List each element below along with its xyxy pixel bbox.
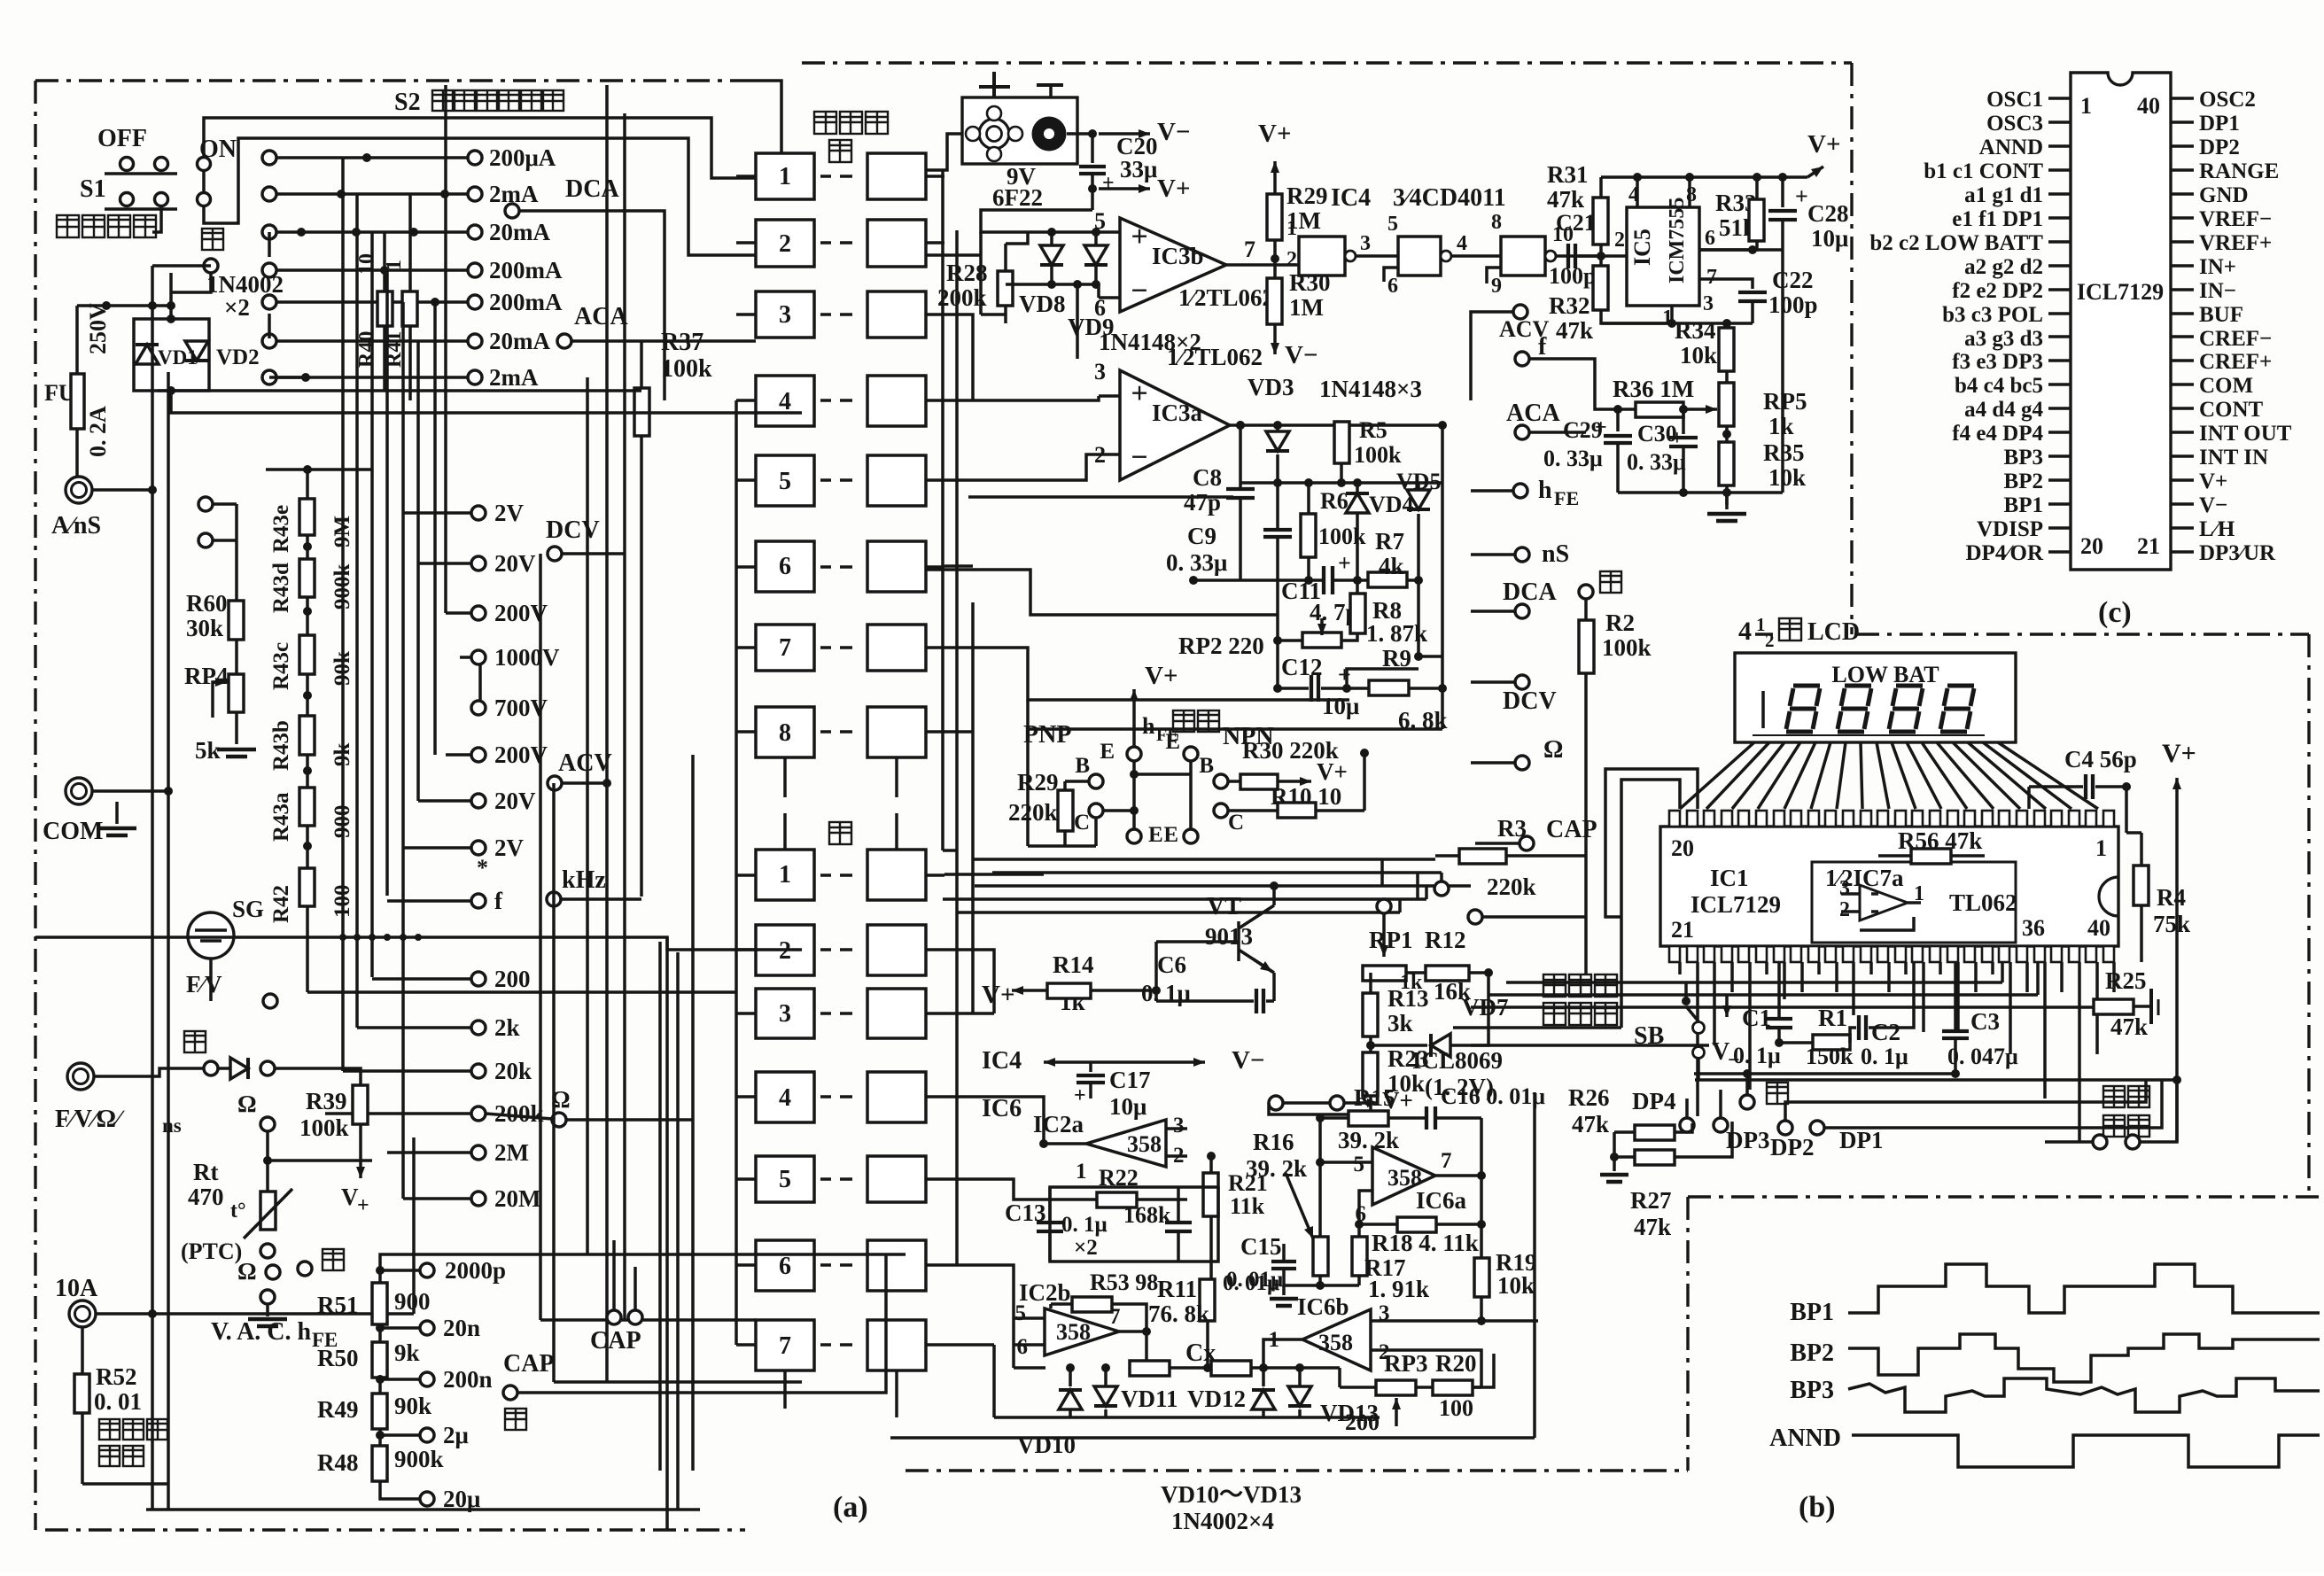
svg-text:3: 3 — [779, 301, 791, 329]
svg-text:nS: nS — [1542, 540, 1569, 568]
svg-text:IC5: IC5 — [1629, 229, 1655, 266]
node ICL8069 label — [1412, 1047, 1503, 1100]
svg-text:TL062: TL062 — [1949, 889, 2017, 916]
resistor R29 220k hfe — [1008, 769, 1089, 846]
node range 2M row — [471, 1139, 529, 1166]
svg-text:ANND: ANND — [1979, 136, 2043, 159]
svg-text:6F22: 6F22 — [992, 184, 1043, 211]
svg-text:(a): (a) — [833, 1491, 868, 1524]
label (b) — [1799, 1491, 1836, 1524]
svg-text:2M: 2M — [494, 1139, 529, 1166]
svg-text:b1 c1 CONT: b1 c1 CONT — [1924, 159, 2043, 183]
svg-text:3: 3 — [1839, 877, 1850, 900]
svg-text:20n: 20n — [443, 1315, 480, 1341]
svg-text:R52: R52 — [96, 1363, 137, 1390]
svg-text:CONT: CONT — [2199, 398, 2264, 422]
svg-text:V: V — [341, 1184, 359, 1210]
svg-text:ICM7555: ICM7555 — [1666, 198, 1689, 283]
svg-text:CREF+: CREF+ — [2199, 350, 2272, 374]
diode VD5 — [1396, 469, 1442, 661]
svg-text:C28: C28 — [1807, 200, 1849, 227]
svg-text:10k: 10k — [1497, 1272, 1535, 1299]
resistor R29 1M — [1267, 182, 1328, 278]
svg-text:20V: 20V — [494, 788, 536, 814]
connector pin box 7 — [736, 1320, 944, 1370]
svg-text:4: 4 — [779, 1084, 791, 1112]
node hFE socket NPN pins — [1163, 730, 1244, 847]
svg-text:10: 10 — [355, 253, 378, 275]
svg-text:2: 2 — [1765, 630, 1775, 651]
svg-text:0. 01: 0. 01 — [94, 1388, 142, 1415]
resistor R33 51k — [1699, 177, 1764, 250]
svg-text:LCD: LCD — [1807, 618, 1860, 646]
svg-text:900: 900 — [394, 1288, 431, 1315]
node ICL7129 left pin a4 d4 g4 — [1964, 398, 2071, 422]
svg-text:R29: R29 — [1017, 769, 1059, 796]
resistor R3 220k — [1435, 815, 1586, 900]
generator SG — [186, 896, 277, 1008]
resistor R10 10 — [1228, 783, 1364, 818]
svg-text:CREF−: CREF− — [2199, 327, 2272, 351]
wire connector left bus — [736, 400, 897, 1417]
node VD10-13 1N4002 label — [1161, 1481, 1302, 1534]
svg-text:R32: R32 — [1549, 292, 1590, 319]
node 电源开关 label — [57, 215, 156, 237]
op-amp IC2a — [1033, 1111, 1187, 1184]
svg-text:150k: 150k — [1806, 1044, 1854, 1069]
svg-text:OFF: OFF — [97, 125, 147, 152]
node ICL7129 right pin CREF+ — [2171, 350, 2272, 374]
svg-text:b2 c2 LOW BATT: b2 c2 LOW BATT — [1869, 231, 2043, 255]
svg-text:ACA: ACA — [1506, 400, 1560, 427]
node hFE socket PNP pins — [1074, 740, 1163, 847]
node ICL7129 right pin VREF+ — [2171, 231, 2272, 255]
svg-text:3: 3 — [779, 1000, 791, 1028]
svg-text:R5: R5 — [1359, 417, 1387, 443]
svg-text:IC1: IC1 — [1710, 865, 1749, 891]
node ICL7129 left pin f4 e4 DP4 — [1952, 422, 2071, 446]
wire IC2b output to Cx — [1014, 1318, 1212, 1372]
wire IC5 bottom node — [1601, 319, 1753, 328]
capacitor C16 0.01u — [1426, 1083, 1545, 1130]
svg-text:Ω: Ω — [237, 1091, 257, 1117]
svg-text:1∕2TL062: 1∕2TL062 — [1178, 284, 1274, 311]
svg-text:C3: C3 — [1970, 1008, 2000, 1035]
svg-text:6: 6 — [779, 1253, 791, 1280]
resistor R51 — [317, 1283, 431, 1324]
svg-text:(b): (b) — [1799, 1491, 1836, 1524]
resistor R28 — [937, 244, 1013, 323]
svg-text:0. 1μ: 0. 1μ — [1733, 1043, 1781, 1068]
svg-text:470: 470 — [188, 1184, 224, 1210]
svg-text:6: 6 — [1705, 227, 1715, 250]
node DCV terminal middle — [1471, 675, 1557, 715]
node DCA terminal — [505, 175, 665, 400]
svg-text:Ω: Ω — [1543, 736, 1563, 764]
svg-text:0. 33μ: 0. 33μ — [1627, 449, 1686, 475]
svg-text:f4 e4 DP4: f4 e4 DP4 — [1952, 422, 2043, 446]
node R27 label — [1630, 1187, 1672, 1240]
resistor R21 11k — [1203, 1152, 1268, 1279]
wire battery to V rails — [926, 129, 1097, 232]
svg-text:39. 2k: 39. 2k — [1246, 1155, 1307, 1182]
node 接插件 connector label — [814, 112, 888, 134]
resistor R30 220k hfe — [1228, 737, 1348, 789]
node ICL7129 left pin a3 g3 d3 — [1964, 327, 2071, 351]
node Omega terminal 200k row — [486, 1086, 693, 1127]
node IC1 pin rows — [1669, 811, 2114, 962]
svg-text:C8: C8 — [1193, 464, 1222, 491]
resistor R17 1.91k — [1284, 1237, 1429, 1302]
node left-connector label 左 — [829, 822, 851, 844]
svg-text:OSC3: OSC3 — [1986, 112, 2043, 136]
node range 2mA row — [262, 181, 539, 207]
node ACV terminal — [548, 749, 612, 790]
svg-text:R25: R25 — [2105, 967, 2147, 994]
svg-text:4k: 4k — [1379, 553, 1404, 579]
svg-text:E: E — [1148, 823, 1163, 847]
node ICL7129 right pin DP2 — [2171, 136, 2240, 159]
node ICL7129 right pin INT IN — [2171, 446, 2268, 470]
svg-text:VD12: VD12 — [1187, 1386, 1246, 1412]
capacitor Cx unknown — [1130, 1339, 1340, 1376]
svg-text:R42: R42 — [269, 885, 293, 923]
resistor R1 150k — [1775, 1005, 1854, 1069]
svg-text:3k: 3k — [1387, 1010, 1413, 1036]
node 200n tap — [376, 1366, 493, 1394]
svg-text:kHz: kHz — [562, 866, 606, 894]
resistor R12 16k — [1406, 927, 1493, 1005]
svg-text:R40: R40 — [355, 331, 378, 368]
svg-text:5: 5 — [1354, 1153, 1365, 1176]
resistor R15 39.2k — [1316, 1084, 1425, 1153]
node range 20V row — [471, 550, 536, 577]
svg-text:V−: V− — [2199, 493, 2227, 517]
svg-text:R20: R20 — [1435, 1350, 1477, 1377]
svg-text:−: − — [1728, 1049, 1740, 1072]
node ICL7129 left pin f3 e3 DP3 — [1952, 350, 2071, 374]
ground C15 R16 R17 — [1270, 1285, 1298, 1306]
svg-text:C6: C6 — [1157, 951, 1186, 978]
svg-text:f: f — [1538, 333, 1547, 361]
node ACV terminal middle — [1471, 305, 1550, 400]
svg-text:C12: C12 — [1281, 654, 1323, 680]
node 1N4148x2 label — [1099, 329, 1201, 355]
node ICL7129 right pin INT OUT — [2171, 422, 2292, 446]
resistor R48 — [317, 1446, 444, 1481]
resistor R49 — [317, 1393, 431, 1429]
wire range row links — [269, 153, 449, 382]
svg-text:OSC2: OSC2 — [2199, 88, 2256, 112]
svg-text:47k: 47k — [2110, 1013, 2148, 1040]
svg-text:RP4: RP4 — [184, 663, 229, 689]
node 刀 terminal middle — [1579, 571, 1621, 620]
wire IC3b input network — [926, 228, 1100, 359]
resistor R8 1.87k — [1341, 580, 1427, 647]
capacitor C4 56p — [2029, 746, 2137, 809]
svg-text:76. 8k: 76. 8k — [1148, 1300, 1209, 1327]
svg-text:11k: 11k — [1230, 1193, 1265, 1219]
svg-text:DCA: DCA — [565, 175, 619, 203]
svg-text:R43b: R43b — [269, 720, 293, 771]
svg-text:9k: 9k — [394, 1339, 420, 1366]
svg-text:S1: S1 — [80, 175, 106, 203]
svg-text:+: + — [1338, 550, 1351, 576]
resistor R60 — [186, 504, 244, 641]
svg-text:VD3: VD3 — [1247, 374, 1294, 400]
svg-text:7: 7 — [779, 634, 791, 662]
svg-text:R2: R2 — [1605, 609, 1635, 636]
power V- arrow top — [1099, 118, 1190, 146]
svg-text:e1 f1 DP1: e1 f1 DP1 — [1952, 207, 2043, 231]
wire long horizontal runs left section — [35, 391, 802, 1382]
resistor R20 100 — [1433, 1350, 1494, 1421]
svg-text:OSC1: OSC1 — [1986, 88, 2043, 112]
svg-text:DP4∕OR: DP4∕OR — [1966, 541, 2044, 565]
wire analog box solid — [890, 1092, 1535, 1438]
svg-text:INT IN: INT IN — [2199, 446, 2268, 470]
svg-text:2000p: 2000p — [445, 1257, 506, 1284]
wire section-b dash-dot border — [1688, 1197, 2320, 1471]
svg-text:47k: 47k — [1547, 186, 1584, 213]
node BP1 waveform — [1790, 1264, 2320, 1326]
node ICL7129 right pin COM — [2171, 374, 2253, 398]
node Omega terminal middle — [1471, 736, 1563, 770]
svg-text:1: 1 — [779, 163, 791, 190]
svg-text:2: 2 — [1286, 248, 1297, 271]
node ICL7129 right pin VREF− — [2171, 207, 2272, 231]
svg-text:R39: R39 — [306, 1088, 347, 1114]
svg-text:B: B — [1075, 754, 1090, 778]
svg-text:47k: 47k — [1572, 1111, 1609, 1137]
svg-text:VD10: VD10 — [1017, 1432, 1076, 1458]
node COM jack — [43, 778, 173, 845]
resistor R43d — [269, 559, 354, 613]
svg-text:+: + — [1795, 183, 1808, 209]
svg-text:+: + — [1338, 662, 1351, 687]
node 刀 lcd — [1694, 1069, 2181, 1109]
capacitor C15 0.01u — [1223, 1233, 1296, 1295]
potentiometer RP2 220 — [1178, 618, 1341, 659]
svg-text:R4: R4 — [2157, 884, 2186, 911]
svg-text:V+: V+ — [1157, 175, 1190, 203]
svg-text:+: + — [1131, 221, 1147, 253]
svg-text:7: 7 — [1706, 266, 1717, 289]
op-amp IC3a — [1094, 344, 1263, 480]
node BP3 waveform — [1790, 1377, 2320, 1412]
node range 20mA row — [262, 328, 550, 354]
svg-text:A∕nS: A∕nS — [51, 512, 101, 540]
wire IC3b output to IC4 — [1226, 217, 1299, 271]
svg-text:0. 01μ: 0. 01μ — [1223, 1271, 1279, 1295]
svg-text:1: 1 — [1756, 614, 1766, 635]
svg-text:1: 1 — [2095, 835, 2107, 861]
connector pin box 2 — [736, 220, 944, 267]
switch SB hold — [1634, 982, 1705, 1080]
node F/V/Omega/ns jack — [55, 1063, 204, 1137]
svg-text:358: 358 — [1056, 1319, 1091, 1345]
svg-text:2: 2 — [1379, 1340, 1390, 1364]
svg-text:R51: R51 — [317, 1292, 359, 1318]
resistor R31 47k — [1547, 161, 1608, 260]
svg-text:R43a: R43a — [269, 792, 293, 842]
svg-text:100k: 100k — [1318, 524, 1366, 549]
wire section-a dash-dot border — [35, 81, 749, 1530]
svg-text:R26: R26 — [1568, 1084, 1610, 1111]
node ICL7129 left pin OSC3 — [1986, 112, 2071, 136]
svg-text:Ω: Ω — [237, 1258, 257, 1285]
svg-text:20μ: 20μ — [443, 1486, 480, 1512]
connector pin box 3 — [736, 989, 944, 1038]
potentiometer RP1 1k — [1363, 899, 1423, 994]
svg-text:V−: V− — [1285, 341, 1317, 369]
svg-text:VREF−: VREF− — [2199, 207, 2272, 231]
svg-text:DP2: DP2 — [2199, 136, 2240, 159]
fuse FU 0.2A — [44, 303, 111, 477]
capacitor C1 0.1u — [1733, 962, 1792, 1068]
svg-text:2: 2 — [1839, 898, 1850, 921]
svg-text:ACA: ACA — [574, 303, 628, 330]
wire IC3a output bus — [1230, 421, 1447, 430]
resistor R11 76.8k — [1148, 1276, 1215, 1368]
wire hFE V+ mesh horizontals — [944, 602, 1442, 1013]
node DP4 DP3 DP2 DP1 terminals — [1632, 1080, 2162, 1161]
node A/nS jack — [51, 477, 152, 540]
svg-text:VD1: VD1 — [158, 346, 198, 369]
svg-text:R43c: R43c — [269, 642, 293, 690]
resistor R50 — [317, 1339, 420, 1378]
svg-text:R34: R34 — [1675, 317, 1716, 344]
svg-text:4: 4 — [1457, 232, 1467, 255]
node ohm ground terminal — [248, 1290, 287, 1326]
svg-text:*: * — [477, 855, 488, 881]
svg-text:40: 40 — [2087, 915, 2110, 941]
connector pin box 4 — [736, 376, 944, 426]
svg-text:168k: 168k — [1123, 1202, 1171, 1228]
svg-text:B: B — [1199, 754, 1214, 778]
node ICL7129 left pin BP2 — [2004, 470, 2071, 493]
capacitor C12 10u — [1273, 640, 1369, 719]
node ICL7129 right pin V− — [2171, 493, 2227, 517]
svg-text:8: 8 — [1686, 183, 1697, 206]
wire IC3a inputs — [944, 396, 1099, 480]
resistor R43a — [269, 788, 354, 842]
svg-text:Rt: Rt — [193, 1159, 219, 1185]
capacitor C30 0.33u — [1627, 405, 1698, 493]
transistor VT 9013 — [1156, 881, 1279, 1001]
node 量程选择 label — [2103, 1086, 2149, 1137]
wire VD10 bottom rail — [994, 1345, 1380, 1458]
svg-text:IC4: IC4 — [982, 1047, 1022, 1075]
logic gate IC4-1 — [1299, 232, 1398, 276]
power V+ terminals mid — [1269, 1087, 1413, 1114]
node kHz terminal — [477, 855, 641, 906]
node range 1000V row — [471, 644, 560, 671]
node range 200V row — [471, 600, 548, 626]
svg-text:39. 2k: 39. 2k — [1338, 1127, 1399, 1153]
resistor R43b — [269, 716, 354, 771]
node range 200k row — [471, 1100, 544, 1127]
connector pin box 5 — [736, 1156, 944, 1202]
svg-text:20k: 20k — [494, 1058, 532, 1084]
ground RP4 — [217, 749, 256, 757]
svg-text:IC2a: IC2a — [1033, 1111, 1084, 1137]
wire LCD to IC1 fan — [1680, 742, 2098, 809]
svg-text:100: 100 — [1439, 1395, 1473, 1421]
power V- lcd — [1712, 995, 1740, 1072]
svg-text:200μA: 200μA — [489, 144, 556, 171]
svg-text:5: 5 — [1387, 213, 1398, 236]
svg-text:RP5: RP5 — [1763, 388, 1807, 415]
svg-text:VD2: VD2 — [216, 345, 260, 369]
svg-text:RP3: RP3 — [1384, 1350, 1428, 1377]
node ICL7129 right pin DP3∕UR — [2171, 541, 2276, 565]
svg-text:90k: 90k — [394, 1393, 431, 1419]
IC U5 ICM7555 — [1627, 183, 1717, 330]
svg-text:1. 91k: 1. 91k — [1368, 1276, 1429, 1302]
node range 2mA row — [262, 364, 539, 391]
svg-text:DCA: DCA — [1503, 578, 1557, 606]
ground R26 R27 — [1600, 1157, 1628, 1182]
node right-connector label 右 — [829, 140, 851, 162]
svg-text:(PTC): (PTC) — [181, 1238, 242, 1264]
wire VD bridge connections — [77, 273, 211, 310]
svg-text:C17: C17 — [1109, 1067, 1151, 1093]
svg-text:RP2 220: RP2 220 — [1178, 633, 1264, 659]
svg-text:900k: 900k — [394, 1446, 444, 1472]
node range 20M row — [471, 1185, 540, 1212]
svg-text:75k: 75k — [2153, 911, 2190, 937]
svg-text:R18 4. 11k: R18 4. 11k — [1372, 1230, 1479, 1256]
svg-text:VD10～VD13: VD10～VD13 — [1161, 1481, 1302, 1508]
svg-text:C16 0. 01μ: C16 0. 01μ — [1441, 1083, 1545, 1109]
battery 9V 6F22 — [962, 72, 1077, 211]
svg-text:a3 g3 d3: a3 g3 d3 — [1964, 327, 2043, 351]
diode ohm protection — [218, 1058, 361, 1085]
resistor R4 75k — [2126, 809, 2190, 962]
svg-text:+: + — [1074, 1084, 1086, 1107]
svg-text:10A: 10A — [55, 1275, 98, 1302]
svg-text:DP2: DP2 — [1770, 1134, 1815, 1161]
svg-text:R60: R60 — [186, 590, 228, 617]
label (c) — [2098, 596, 2132, 629]
capacitor C28 10u — [1768, 177, 1849, 252]
svg-text:R6: R6 — [1320, 488, 1349, 514]
svg-text:7: 7 — [1244, 237, 1255, 262]
resistor R56 47k — [1878, 827, 1985, 864]
resistor R39 — [299, 1085, 368, 1141]
svg-text:ns: ns — [162, 1114, 182, 1137]
node ICL7129 left pin OSC1 — [1986, 88, 2071, 112]
connector pin box 6 — [736, 541, 944, 592]
node PNP label — [1023, 721, 1071, 749]
connector pin box 7 — [736, 625, 944, 671]
logic gate IC4-2 — [1384, 213, 1501, 298]
ground COM — [97, 802, 136, 835]
node 4.5-digit LCD label — [1738, 614, 1860, 651]
svg-text:R3: R3 — [1497, 815, 1527, 842]
node range 200μA row — [262, 144, 556, 171]
svg-text:21: 21 — [1671, 917, 1694, 943]
svg-text:R11: R11 — [1157, 1276, 1197, 1302]
ground R25 — [2151, 989, 2158, 1024]
svg-text:21: 21 — [2137, 533, 2160, 559]
svg-text:IC3b: IC3b — [1152, 243, 1204, 269]
svg-text:DP1: DP1 — [1839, 1127, 1884, 1153]
svg-text:47p: 47p — [1184, 489, 1221, 516]
svg-text:40: 40 — [2137, 93, 2160, 119]
svg-text:IN+: IN+ — [2199, 255, 2236, 279]
